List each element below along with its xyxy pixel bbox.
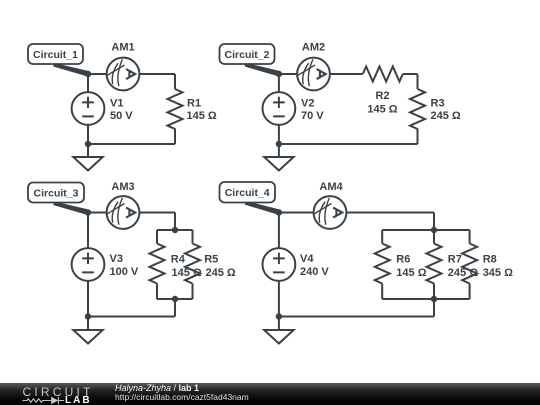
svg-text:345 Ω: 345 Ω bbox=[483, 267, 513, 279]
svg-text:240 V: 240 V bbox=[300, 266, 329, 278]
svg-text:R6: R6 bbox=[396, 254, 410, 266]
svg-text:V2: V2 bbox=[301, 98, 314, 110]
svg-text:70 V: 70 V bbox=[301, 110, 324, 122]
svg-text:AM2: AM2 bbox=[302, 42, 325, 54]
svg-text:R4: R4 bbox=[171, 254, 186, 266]
svg-text:145 Ω: 145 Ω bbox=[367, 103, 397, 115]
svg-text:Circuit_2: Circuit_2 bbox=[225, 49, 270, 61]
svg-text:Circuit_1: Circuit_1 bbox=[33, 49, 78, 61]
svg-text:145 Ω: 145 Ω bbox=[396, 267, 426, 279]
svg-text:AM4: AM4 bbox=[319, 181, 343, 193]
svg-text:AM3: AM3 bbox=[111, 181, 134, 193]
svg-text:V4: V4 bbox=[300, 253, 314, 265]
svg-text:R1: R1 bbox=[187, 98, 201, 110]
svg-text:Circuit_4: Circuit_4 bbox=[225, 187, 270, 199]
svg-text:145 Ω: 145 Ω bbox=[187, 110, 217, 122]
svg-text:R2: R2 bbox=[375, 90, 389, 102]
svg-text:AM1: AM1 bbox=[111, 42, 134, 54]
svg-text:100 V: 100 V bbox=[110, 266, 139, 278]
svg-text:245 Ω: 245 Ω bbox=[206, 267, 236, 279]
svg-text:245 Ω: 245 Ω bbox=[448, 267, 478, 279]
svg-text:R7: R7 bbox=[448, 254, 462, 266]
svg-text:R5: R5 bbox=[204, 254, 218, 266]
svg-text:V3: V3 bbox=[110, 253, 123, 265]
svg-text:Circuit_3: Circuit_3 bbox=[34, 188, 79, 200]
svg-text:145 Ω: 145 Ω bbox=[172, 267, 202, 279]
svg-text:50 V: 50 V bbox=[110, 110, 133, 122]
svg-text:V1: V1 bbox=[110, 98, 123, 110]
svg-text:R8: R8 bbox=[483, 254, 497, 266]
svg-text:R3: R3 bbox=[431, 98, 445, 110]
svg-text:245 Ω: 245 Ω bbox=[431, 110, 461, 122]
